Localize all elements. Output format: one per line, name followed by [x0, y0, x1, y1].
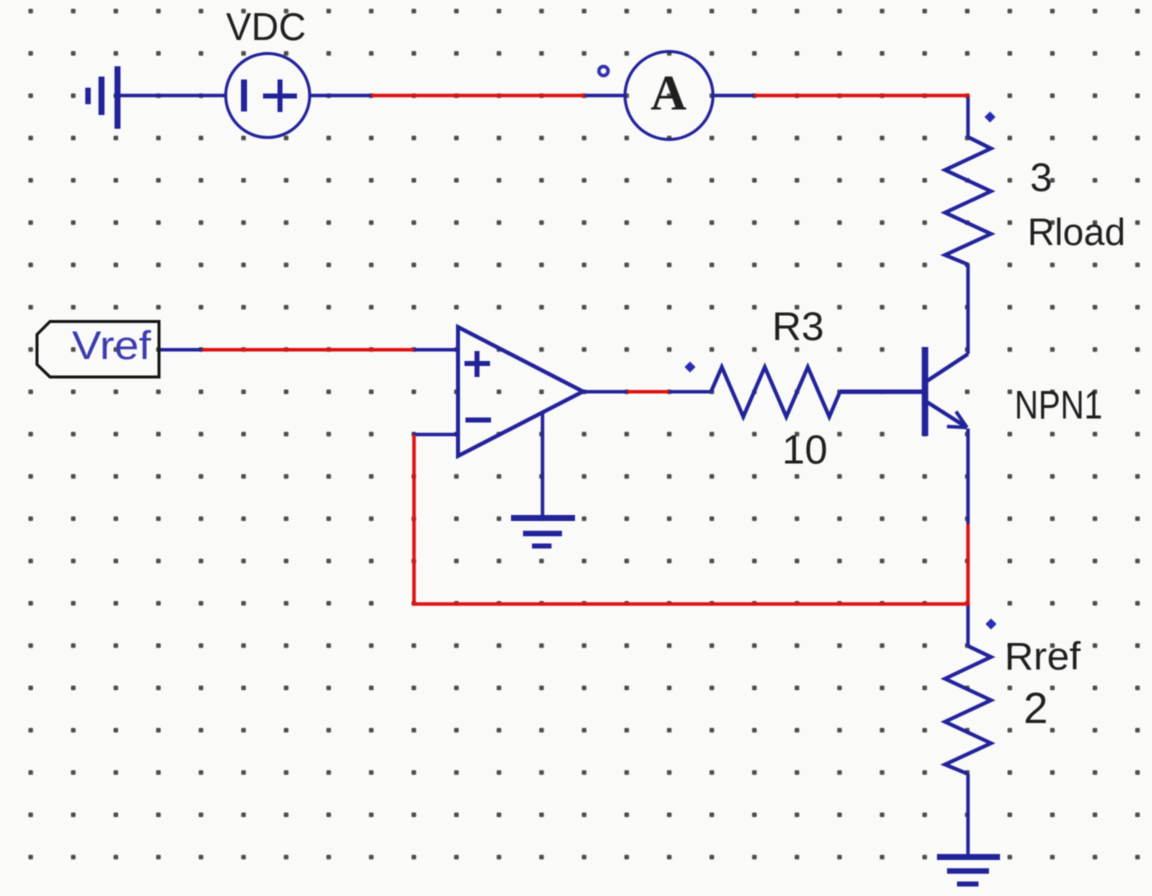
svg-text:R3: R3	[772, 305, 824, 349]
svg-text:Rload: Rload	[1028, 212, 1126, 254]
svg-text:NPN1: NPN1	[1015, 384, 1103, 428]
svg-text:VDC: VDC	[226, 6, 306, 49]
svg-text:3: 3	[1030, 156, 1052, 200]
svg-text:A: A	[650, 65, 686, 121]
svg-text:Rref: Rref	[1005, 636, 1081, 679]
svg-text:Vref: Vref	[72, 324, 152, 368]
svg-text:2: 2	[1024, 684, 1048, 733]
svg-text:10: 10	[782, 427, 828, 473]
